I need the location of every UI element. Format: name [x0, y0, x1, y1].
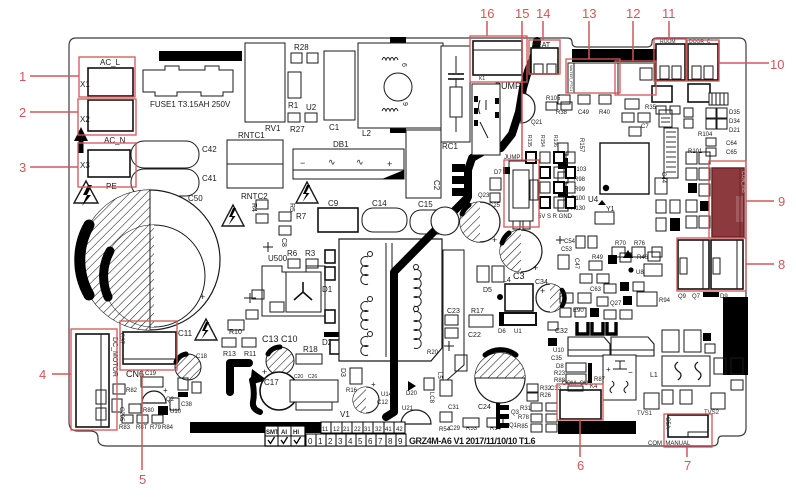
svg-text:D35: D35 — [729, 110, 741, 116]
svg-text:+: + — [492, 235, 497, 245]
capacitor C2 — [406, 130, 441, 198]
svg-text:TVS1: TVS1 — [637, 411, 653, 417]
svg-text:R70: R70 — [615, 241, 627, 247]
svg-text:4: 4 — [39, 367, 46, 382]
transistor Q21 — [521, 93, 543, 126]
diode D20 — [406, 372, 442, 397]
svg-text:R7: R7 — [296, 212, 307, 221]
svg-text:C24: C24 — [478, 404, 491, 411]
transistor row Q9 Q7 D9 — [678, 292, 728, 300]
resistor R5 R7 — [279, 203, 307, 235]
svg-text:C64: C64 — [726, 141, 738, 147]
connector X1 — [80, 58, 133, 96]
svg-text:0: 0 — [308, 437, 313, 446]
svg-text:U10: U10 — [553, 348, 565, 354]
svg-text:R20: R20 — [427, 350, 439, 356]
svg-text:∿: ∿ — [328, 157, 336, 167]
capacitor C42 — [131, 141, 217, 168]
svg-text:C2: C2 — [432, 180, 441, 191]
svg-text:8: 8 — [778, 257, 785, 272]
svg-text:L2: L2 — [362, 129, 371, 138]
svg-text:C12: C12 — [377, 400, 389, 406]
svg-text:RNTC1: RNTC1 — [238, 131, 265, 140]
svg-text:5: 5 — [139, 472, 146, 487]
connector CN3 region8 right — [711, 240, 743, 289]
capacitor C44 — [655, 172, 667, 194]
smd cluster center-right — [558, 250, 671, 319]
svg-text:R80: R80 — [143, 408, 155, 414]
callout 12 — [626, 6, 640, 61]
svg-text:9: 9 — [401, 102, 408, 106]
svg-text:C7: C7 — [641, 124, 649, 130]
svg-text:5V S R GND: 5V S R GND — [538, 214, 573, 220]
resistor R18 — [296, 345, 322, 364]
svg-text:R13: R13 — [223, 351, 236, 358]
IC U14 — [346, 368, 393, 398]
svg-text:11: 11 — [662, 6, 676, 21]
diode D5 — [477, 266, 504, 294]
relay K3 — [618, 63, 655, 95]
svg-text:R35: R35 — [645, 105, 657, 111]
black U pads — [577, 322, 616, 334]
svg-text:D5: D5 — [483, 287, 492, 294]
svg-text:L1: L1 — [650, 372, 658, 379]
connector DC_MOTOR — [76, 334, 118, 427]
svg-text:D20: D20 — [406, 391, 418, 397]
callout 3 — [19, 160, 78, 175]
opto bar1 — [568, 337, 610, 356]
svg-text:D7: D7 — [494, 170, 502, 176]
svg-text:12: 12 — [626, 6, 640, 21]
svg-text:9: 9 — [398, 437, 403, 446]
connector DOOR_C — [688, 39, 718, 80]
svg-text:X3: X3 — [80, 161, 90, 170]
snubber RC1 — [441, 46, 470, 151]
svg-text:D21: D21 — [729, 128, 741, 134]
resistor R105 — [546, 96, 572, 110]
svg-text:C54: C54 — [564, 239, 576, 245]
svg-text:R46: R46 — [637, 255, 649, 261]
resistor R32 R26 — [527, 384, 552, 401]
component U2 R27 — [288, 103, 317, 134]
svg-text:C42: C42 — [202, 145, 217, 154]
thick trace top-right bus — [572, 49, 657, 62]
svg-text:42: 42 — [396, 427, 403, 433]
svg-text:R16: R16 — [346, 388, 358, 394]
label block vertical right — [664, 128, 678, 178]
svg-text:C50: C50 — [188, 194, 203, 203]
callout 11 — [662, 6, 676, 39]
resistor R101 C64 C65 — [688, 138, 738, 156]
svg-text:RC1: RC1 — [442, 142, 459, 151]
svg-text:RV1: RV1 — [265, 124, 281, 133]
svg-text:+: + — [371, 380, 376, 389]
svg-text:R10: R10 — [229, 329, 242, 336]
svg-text:Q9: Q9 — [678, 294, 687, 300]
svg-text:D6: D6 — [498, 329, 506, 335]
svg-text:WATER_PTC1: WATER_PTC1 — [569, 65, 574, 92]
warning bolt near C9 — [296, 182, 318, 203]
connector X2 — [80, 100, 133, 145]
IC U21 dome — [401, 406, 431, 424]
svg-text:C29: C29 — [449, 426, 461, 432]
diode D6 IC U1 — [498, 312, 536, 335]
svg-text:R17: R17 — [471, 308, 484, 315]
svg-text:∿: ∿ — [356, 157, 364, 167]
capacitor C29 R53 R54 — [449, 418, 503, 432]
svg-text:+: + — [540, 286, 545, 296]
svg-text:2: 2 — [328, 437, 333, 446]
svg-text:C1: C1 — [329, 123, 340, 132]
svg-text:Q21: Q21 — [531, 120, 543, 126]
svg-text:6: 6 — [368, 437, 373, 446]
svg-text:R38: R38 — [556, 110, 568, 116]
arrow up black — [74, 127, 88, 153]
warning bolt near C11 — [195, 319, 217, 340]
svg-text:C26: C26 — [308, 374, 317, 380]
connector pins black E — [496, 403, 509, 429]
resistor column R157-R130 — [558, 138, 587, 212]
svg-text:C38: C38 — [181, 402, 193, 408]
inductor L4 — [497, 277, 533, 311]
capacitor C24 — [475, 350, 525, 411]
black block right side — [723, 297, 748, 375]
board outline — [69, 38, 746, 446]
svg-text:4: 4 — [348, 437, 353, 446]
svg-text:U4: U4 — [588, 195, 599, 204]
red annotation box HEAT — [529, 40, 560, 74]
svg-text:K1: K1 — [479, 76, 485, 82]
svg-text:C13 C10: C13 C10 — [262, 334, 298, 344]
capacitor unlabeled plain — [431, 207, 459, 235]
svg-text:C47: C47 — [573, 258, 579, 270]
svg-text:R5: R5 — [288, 203, 295, 212]
transformer L2 top tab — [390, 37, 406, 43]
svg-text:L4: L4 — [503, 277, 511, 284]
filter cap box plus-minus — [603, 355, 636, 400]
capacitor C8 — [263, 238, 287, 252]
transistor Q2 dome — [142, 391, 175, 403]
red annotation box X2 — [78, 99, 136, 135]
capacitor C13 body — [266, 347, 294, 375]
resistor R1 — [288, 72, 301, 110]
svg-text:31: 31 — [364, 427, 371, 433]
small rects above L1 — [662, 330, 715, 353]
callout 6 — [577, 420, 584, 473]
connector CN2 region8 left — [678, 240, 709, 289]
red annotation box DOOR_C — [687, 40, 719, 81]
svg-text:7: 7 — [684, 458, 691, 473]
svg-text:10: 10 — [770, 57, 784, 72]
svg-text:R84: R84 — [162, 425, 174, 431]
svg-text:U8: U8 — [636, 270, 644, 276]
svg-text:R79: R79 — [150, 425, 162, 431]
svg-text:C5A: C5A — [664, 417, 670, 429]
resistor R13 R11 — [222, 338, 256, 358]
transistor Q3 Q1 rows — [509, 403, 557, 432]
red annotation box CN6 — [120, 321, 177, 370]
smd cluster below connectors — [622, 84, 728, 136]
transformer L2 bottom tab — [390, 127, 406, 133]
diode pair near U500 bottom — [178, 378, 201, 397]
svg-text:AC_L: AC_L — [100, 58, 121, 67]
svg-text:HI: HI — [293, 430, 299, 436]
relay K1 body — [472, 84, 500, 155]
svg-text:R31: R31 — [520, 406, 532, 412]
svg-text:+: + — [387, 159, 392, 169]
svg-text:DB1: DB1 — [333, 140, 349, 149]
callout 7 — [684, 447, 691, 473]
resistor ladder left of CON — [686, 152, 710, 228]
svg-text:U500: U500 — [268, 254, 288, 263]
connector HEAT — [531, 42, 558, 74]
TVS1 — [637, 393, 659, 417]
wire thick trace through T1 — [386, 199, 466, 417]
transistor Q23 — [478, 193, 500, 202]
svg-text:41: 41 — [385, 427, 392, 433]
red annotation box CN2 CN3 — [677, 238, 746, 291]
svg-text:−: − — [628, 368, 633, 377]
diode D7 — [490, 167, 510, 190]
connector K1 PUMP — [473, 41, 522, 91]
svg-text:R76: R76 — [634, 241, 646, 247]
black bar bottom-center — [558, 421, 636, 434]
svg-text:L5: L5 — [436, 372, 442, 379]
svg-text:C23: C23 — [447, 308, 460, 315]
svg-text:R85: R85 — [517, 424, 529, 430]
callout 4 — [39, 367, 71, 382]
svg-text:C3: C3 — [513, 271, 525, 281]
resistor pair R109 R96 — [656, 200, 680, 231]
svg-text:1: 1 — [318, 437, 323, 446]
svg-text:C18: C18 — [196, 354, 208, 360]
connector COM_OUT region6 — [560, 377, 606, 419]
red annotation box COM_OUT — [557, 384, 603, 420]
IC U500 — [262, 254, 325, 316]
svg-text:6: 6 — [577, 458, 584, 473]
resistor cluster left CN6 — [96, 384, 193, 431]
capacitor C20 C26 — [294, 374, 322, 388]
callout 10 — [719, 41, 784, 72]
opto bar2 — [611, 337, 654, 356]
capacitor C18 — [175, 354, 208, 380]
capacitor C1 — [324, 51, 355, 132]
black bar bottom-left — [190, 422, 366, 433]
svg-text:R11: R11 — [244, 351, 256, 358]
diode D2 — [322, 310, 340, 347]
svg-text:7: 7 — [378, 437, 383, 446]
svg-text:R94: R94 — [659, 298, 671, 304]
callout 2 — [19, 105, 78, 120]
callout 16 — [480, 6, 494, 36]
svg-text:K4: K4 — [590, 384, 598, 390]
svg-text:C33: C33 — [550, 386, 562, 392]
heatsink bar right of T1 — [443, 250, 464, 380]
warning bolt near RNTC2 — [222, 205, 244, 226]
resistor R70 R76 — [612, 241, 662, 257]
connector C11 CN6 — [118, 329, 193, 379]
capacitor C3 — [500, 230, 542, 281]
switch table SMT AI HI — [265, 426, 305, 446]
text 5V S R GND — [538, 214, 573, 220]
svg-text:R54: R54 — [439, 427, 451, 433]
svg-text:LC8: LC8 — [428, 392, 434, 404]
bridge rectifier DB1 — [293, 140, 404, 179]
display connector CON maroon — [712, 168, 746, 237]
svg-text:R78: R78 — [518, 415, 530, 421]
svg-text:AI: AI — [281, 430, 287, 436]
svg-text:C15: C15 — [418, 200, 433, 209]
svg-text:C8: C8 — [280, 238, 287, 247]
capacitor C32 — [548, 322, 568, 335]
svg-text:+: + — [606, 365, 611, 374]
capacitor C33 — [550, 386, 562, 392]
svg-text:FUSE1 T3.15AH 250V: FUSE1 T3.15AH 250V — [150, 100, 231, 109]
svg-text:C17: C17 — [264, 378, 279, 387]
svg-text:D9: D9 — [720, 294, 728, 300]
red annotation box K2 — [566, 59, 620, 93]
svg-text:SMT: SMT — [266, 430, 279, 436]
diode D1 — [322, 250, 335, 294]
svg-text:11: 11 — [322, 427, 329, 433]
red annotation box display CON — [709, 161, 746, 238]
svg-text:+: + — [262, 367, 267, 377]
warning bolt PE — [74, 181, 98, 206]
svg-text:COM_MANUAL: COM_MANUAL — [648, 441, 691, 447]
IC U11 block — [290, 368, 346, 410]
svg-text:15: 15 — [515, 6, 529, 21]
resistor R4 — [250, 200, 268, 223]
small parts above C13 — [244, 290, 284, 319]
svg-text:D8: D8 — [556, 364, 564, 370]
small parts below L1 — [662, 358, 743, 404]
capacitor C25 — [489, 203, 501, 209]
capacitor C9 — [318, 199, 358, 232]
diode grid D35 D34 D21 — [684, 108, 741, 138]
label V1 — [340, 410, 350, 419]
svg-text:C37: C37 — [118, 333, 124, 345]
svg-text:R87: R87 — [594, 377, 606, 383]
red annotation box X3 — [78, 143, 136, 187]
svg-text:V1: V1 — [340, 410, 350, 419]
transformer L2 — [358, 43, 443, 138]
svg-text:U1: U1 — [514, 329, 522, 335]
diode D8 R23 R88 — [554, 363, 592, 384]
svg-text:14: 14 — [536, 6, 550, 21]
resistor R28 — [291, 43, 318, 63]
thick trace top-left bus — [159, 51, 242, 61]
red annotation box DC_MOTOR — [71, 329, 117, 430]
wire thick elbow near CN6 — [230, 363, 267, 412]
svg-text:U14: U14 — [381, 392, 393, 398]
svg-text:GRZ4M-A6 V1 2017/11/10/10 T1.6: GRZ4M-A6 V1 2017/11/10/10 T1.6 — [409, 436, 536, 446]
small rects left of C24 — [427, 341, 467, 433]
callout 13 — [582, 6, 596, 59]
svg-text:13: 13 — [582, 6, 596, 21]
red annotation box ROOM — [654, 39, 686, 81]
svg-text:3: 3 — [19, 160, 26, 175]
capacitor C50 big electrolytic — [80, 190, 220, 330]
svg-text:C41: C41 — [202, 174, 217, 183]
svg-text:C22: C22 — [468, 332, 481, 339]
svg-text:16: 16 — [480, 6, 494, 21]
svg-text:X1: X1 — [80, 80, 90, 89]
capacitor C23 — [445, 308, 460, 338]
svg-text:C32: C32 — [555, 328, 568, 335]
svg-text:R1: R1 — [288, 101, 299, 110]
svg-text:−: − — [300, 158, 305, 168]
capacitor C41 — [131, 169, 217, 196]
resistor R17 — [468, 308, 493, 339]
svg-text:+: + — [200, 292, 205, 302]
version text — [409, 436, 536, 446]
svg-text:12: 12 — [333, 427, 340, 433]
svg-text:C20: C20 — [294, 374, 303, 380]
svg-text:R6: R6 — [287, 249, 298, 258]
svg-text:1: 1 — [19, 69, 26, 84]
crystal Y1 — [595, 200, 615, 224]
capacitor C15 — [410, 200, 456, 234]
callout 14 — [536, 6, 550, 40]
svg-text:R3: R3 — [305, 249, 316, 258]
svg-text:R154: R154 — [539, 135, 545, 147]
svg-text:C11: C11 — [178, 329, 193, 338]
svg-text:32: 32 — [375, 427, 382, 433]
red annotation box JUMP — [504, 160, 539, 227]
capacitor electrolytic mid1 — [460, 202, 500, 245]
red annotation box PUMP — [470, 36, 527, 82]
callout 9 — [746, 194, 785, 209]
dip table row2 — [306, 434, 406, 446]
TVS2 — [704, 393, 725, 416]
svg-text:R105: R105 — [546, 96, 561, 102]
svg-text:R26: R26 — [540, 393, 552, 399]
red annotation box COM_MANUAL — [664, 414, 712, 447]
capacitor C54 C53 — [556, 236, 597, 253]
svg-text:Q27: Q27 — [610, 301, 622, 307]
svg-text:R23: R23 — [554, 371, 566, 377]
svg-text:R18: R18 — [303, 345, 318, 354]
fuse FUSE1 — [143, 66, 233, 109]
jumper JUMP connector — [504, 155, 538, 229]
svg-text:21: 21 — [343, 427, 350, 433]
svg-text:3: 3 — [338, 437, 343, 446]
svg-text:8: 8 — [388, 437, 393, 446]
svg-text:R135: R135 — [526, 135, 532, 147]
svg-text:C63: C63 — [590, 287, 602, 293]
svg-text:+: + — [533, 263, 538, 273]
svg-text:C14: C14 — [372, 199, 387, 208]
svg-text:R27: R27 — [290, 125, 305, 134]
svg-text:9: 9 — [778, 194, 785, 209]
resistor R6 R3 — [287, 249, 318, 268]
svg-text:R99: R99 — [574, 187, 586, 193]
red annotation box K3 — [615, 61, 656, 95]
svg-text:R82: R82 — [126, 388, 138, 394]
resistor R38 C49 R40 — [556, 95, 611, 116]
inductor L1 S-curve box — [650, 356, 710, 386]
wire thick HEAT-to-DB1 main trace — [452, 41, 537, 201]
connector ROOM — [656, 39, 685, 80]
capacitor C14 — [362, 199, 407, 232]
diode D3 body — [330, 340, 340, 354]
capacitor C13 C10 labels — [262, 334, 298, 344]
svg-text:R40: R40 — [599, 110, 611, 116]
varistor RV1 — [245, 43, 285, 133]
thermistor RNTC1 RNTC2 — [227, 131, 283, 201]
callout 8 — [746, 257, 785, 272]
svg-text:C65: C65 — [726, 150, 738, 156]
